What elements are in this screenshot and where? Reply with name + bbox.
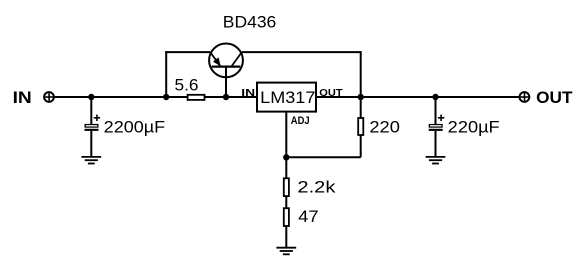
wire between R3 and R4 — [285, 196, 287, 208]
wire R4 bottom lead — [285, 226, 287, 247]
svg-text:IN: IN — [241, 87, 255, 99]
wire cap C1 bottom lead — [90, 131, 92, 157]
wire cap C2 top lead — [435, 97, 437, 124]
wire emitter vertical (left riser) — [165, 51, 167, 97]
transistor Q1 BD436 (PNP) — [209, 44, 243, 98]
svg-text:LM317: LM317 — [260, 88, 315, 107]
wire resistor R2 bottom lead — [360, 135, 362, 157]
svg-text:OUT: OUT — [536, 88, 573, 107]
wire cap C2 bottom lead — [435, 131, 437, 157]
capacitor C1 2200uF (polarized, plus plate open rect) — [85, 115, 101, 131]
wire main rail left (IN terminal to LM317 IN pin) — [54, 96, 257, 98]
svg-text:BD436: BD436 — [223, 13, 276, 32]
wire emitter horizontal (top left) — [165, 51, 210, 53]
label BD436 — [223, 13, 276, 32]
wire cap C1 top lead — [90, 97, 92, 124]
svg-text:ADJ: ADJ — [291, 115, 310, 127]
node resistor R1 left / emitter junction — [163, 94, 169, 100]
label 2.2k — [297, 178, 336, 197]
wire resistor R2 top lead — [360, 97, 362, 118]
svg-text:220: 220 — [369, 117, 400, 136]
svg-text:2200µF: 2200µF — [104, 118, 166, 137]
terminal OUT (circle with plus) — [520, 92, 530, 102]
node collector/R2 junction on output rail — [358, 94, 364, 100]
label 220 — [369, 117, 400, 136]
node output cap junction — [432, 94, 438, 100]
svg-text:47: 47 — [298, 207, 319, 226]
resistor R4 47 (body) — [284, 208, 289, 226]
terminal IN (circle with plus) — [44, 92, 54, 102]
wire feedback horizontal (R2 bottom to ADJ node) — [286, 156, 360, 158]
label 47 — [298, 207, 319, 226]
resistor R1 5.6 (body) — [188, 95, 205, 100]
label 5.6 — [175, 76, 199, 95]
node transistor base junction — [223, 94, 229, 100]
resistor R2 220 (body) — [358, 118, 363, 135]
ground (ADJ divider) — [276, 248, 296, 255]
svg-text:5.6: 5.6 — [175, 76, 199, 95]
label IN (input terminal name) — [13, 88, 32, 107]
wire ADJ pin vertical — [285, 112, 287, 178]
pin label IN (LM317) — [241, 87, 255, 99]
node ADJ junction — [283, 154, 289, 160]
wire collector vertical (right riser to output rail) — [360, 51, 362, 97]
ground (input cap) — [81, 157, 101, 164]
svg-text:IN: IN — [13, 88, 32, 107]
pin label OUT (LM317) — [319, 87, 343, 99]
svg-text:220µF: 220µF — [448, 118, 500, 137]
wire collector horizontal (top right) — [242, 51, 361, 53]
label 220uF — [448, 118, 500, 137]
svg-text:2.2k: 2.2k — [297, 178, 336, 197]
resistor R3 2.2k (body) — [284, 178, 289, 196]
ground (output cap) — [426, 157, 446, 164]
node input cap junction — [88, 94, 94, 100]
op-amp U1 LM317 regulator box — [257, 83, 316, 112]
capacitor C2 220uF (polarized, plus plate open rect) — [429, 115, 445, 131]
wire main rail right (LM317 OUT pin to OUT terminal) — [316, 96, 519, 98]
label OUT (output terminal name) — [536, 88, 573, 107]
label 2200uF — [104, 118, 166, 137]
pin label ADJ (LM317) — [291, 115, 310, 127]
